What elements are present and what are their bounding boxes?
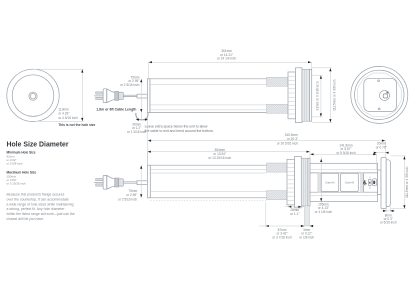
svg-text:or 13 15/16 inch: or 13 15/16 inch <box>208 156 231 160</box>
dimension 105mm <box>315 157 333 215</box>
svg-text:Leave extra space below the un: Leave extra space below the unit to allo… <box>145 125 208 129</box>
plug flare <box>107 89 115 103</box>
top view: flange inner circle <box>12 75 54 117</box>
dimension 354mm <box>147 148 310 165</box>
plug strain relief <box>119 92 124 99</box>
bottom view: outer circle <box>351 66 408 123</box>
svg-text:or 2 5/16 inch: or 2 5/16 inch <box>120 83 140 87</box>
locking ring (view B) <box>288 72 296 119</box>
dimension 87mm and 3mm <box>259 203 314 240</box>
svg-text:91mm or 3 9/16 inch: 91mm or 3 9/16 inch <box>315 81 319 110</box>
dimension 8mm (lid lip) <box>380 207 397 225</box>
installed view: tube body <box>150 165 266 200</box>
svg-text:over the countertop, it can ac: over the countertop, it can accommodate <box>7 197 69 201</box>
svg-text:within the listed range will w: within the listed range will work—just u… <box>7 212 75 216</box>
svg-text:or 2 5/16 inch: or 2 5/16 inch <box>118 197 138 201</box>
installed view: collar ring <box>295 156 302 208</box>
svg-text:or 4 1/8 inch: or 4 1/8 inch <box>315 210 333 214</box>
svg-text:Because this product’s flange: Because this product’s flange secures <box>7 193 65 197</box>
svg-text:Outlet #2: Outlet #2 <box>345 181 355 184</box>
dimension 28mm <box>285 205 306 216</box>
usb-a port <box>368 179 371 185</box>
svg-text:a wide range of hole sizes whi: a wide range of hole sizes while maintai… <box>7 202 74 206</box>
bottom view: latch <box>380 91 390 101</box>
svg-text:1.8m or 6ft Cable Length: 1.8m or 6ft Cable Length <box>96 107 136 111</box>
power plug P2 (installed view) <box>94 175 147 189</box>
plug top pin <box>96 92 104 94</box>
note: leave extra space below the unit <box>145 125 214 133</box>
lid stem <box>378 170 381 195</box>
plug earth pin <box>94 95 103 97</box>
svg-text:or 1.1": or 1.1" <box>290 212 299 216</box>
dimension 110mm: dimension line <box>81 69 83 121</box>
plug body face <box>103 89 107 103</box>
outlet #2 <box>341 173 359 191</box>
dimension 20mm (lid width) <box>374 142 389 154</box>
dimension 361mm <box>148 49 311 79</box>
dimension 110mm: extension lines <box>33 69 84 121</box>
lid outer disc <box>386 160 390 207</box>
plug bottom pin <box>96 97 104 99</box>
svg-text:or 4 5/16 inch: or 4 5/16 inch <box>58 116 78 120</box>
svg-text:or 3 15/16 inch: or 3 15/16 inch <box>7 182 27 186</box>
svg-text:or 5 9/16 inch: or 5 9/16 inch <box>336 151 356 155</box>
paragraph: hole size explanation <box>7 193 75 221</box>
bottom view: inner circle <box>355 70 404 119</box>
svg-text:or 4.33": or 4.33" <box>58 112 69 116</box>
svg-text:or 1/8 inch: or 1/8 inch <box>299 235 314 239</box>
plug cable <box>123 95 137 96</box>
cable length label <box>96 107 136 111</box>
threaded section (view B) <box>267 77 289 113</box>
bottom view: rounded square base <box>364 78 397 111</box>
outlet #1 <box>321 173 338 191</box>
cable connector stub <box>137 94 147 98</box>
top view: flange outer circle <box>7 69 59 121</box>
flange gasket (view B) <box>302 69 310 121</box>
plug ferrule <box>115 91 119 100</box>
svg-text:This is not the hole size: This is not the hole size <box>58 123 95 127</box>
svg-text:or 14 1/4 inch: or 14 1/4 inch <box>217 57 237 61</box>
dimension 141.5mm <box>310 143 377 169</box>
note: this is not the hole size <box>58 123 95 127</box>
installed view: threaded section <box>267 163 289 200</box>
svg-text:or 3 7/16 inch: or 3 7/16 inch <box>272 235 292 239</box>
dimension 91mm (collar) <box>312 75 322 117</box>
label: maximum hole size <box>7 170 37 185</box>
svg-text:or 20 5/16 inch: or 20 5/16 inch <box>277 141 298 145</box>
dimension 110mm: value label <box>58 107 78 120</box>
svg-text:111.5mm or 4 3/8 inch: 111.5mm or 4 3/8 inch <box>332 79 336 110</box>
dimension 75mm (view B) <box>120 75 142 112</box>
usb-c port <box>372 179 376 186</box>
head face left hatch strip <box>318 173 321 192</box>
heading: Hole Size Diameter <box>7 142 69 149</box>
svg-text:or 5/16 inch: or 5/16 inch <box>380 221 397 225</box>
main unit side view (view B, extended): tube end cap <box>147 79 150 113</box>
installed view: locking ring <box>287 159 295 205</box>
lid disc <box>381 158 386 209</box>
bottom view: dodecagon ring <box>357 73 401 117</box>
installed view: flange gasket <box>301 158 308 206</box>
svg-text:or 1 3/16 inch: or 1 3/16 inch <box>127 130 147 134</box>
svg-text:closest drill bit you have.: closest drill bit you have. <box>7 217 44 221</box>
flange rim (view B) <box>310 69 312 121</box>
svg-text:111.5mm or 4 3/8 inch: 111.5mm or 4 3/8 inch <box>405 166 409 197</box>
dimension 111.5mm (lid) <box>391 156 409 209</box>
collar ring (view B) <box>296 68 303 123</box>
svg-text:Outlet #1: Outlet #1 <box>325 181 335 184</box>
pop-up head housing <box>310 163 378 201</box>
flange gasket extension <box>304 206 309 226</box>
usb panel <box>363 173 376 192</box>
installed view: tube end cap <box>147 165 150 198</box>
head face right hatch strip <box>361 173 364 192</box>
dimension 75mm (installed view) <box>118 165 142 201</box>
label: minimum hole size <box>7 151 36 166</box>
svg-text:the cable to exit and bend aro: the cable to exit and bend around the bo… <box>145 129 214 133</box>
dimension 30mm (cable clearance) <box>127 113 148 134</box>
svg-text:a strong, perfect fit. Any hol: a strong, perfect fit. Any hole diameter <box>7 207 66 211</box>
svg-text:Hole Size Diameter: Hole Size Diameter <box>7 142 69 149</box>
bottom view: screws <box>378 80 380 110</box>
dimension 111.5mm (flange) <box>312 68 336 123</box>
cable bend loop below unit <box>136 113 148 120</box>
svg-text:or 3 5/8 inch: or 3 5/8 inch <box>7 162 23 166</box>
top view: center latch circles <box>29 92 37 100</box>
svg-text:or 0.79": or 0.79" <box>376 145 387 149</box>
dimension 515.5mm <box>148 114 386 166</box>
power plug P1 (extended view) <box>94 89 147 103</box>
usb trident icon <box>364 181 367 186</box>
installed view: flange rim <box>308 158 310 206</box>
tube body (view B) <box>150 79 267 113</box>
